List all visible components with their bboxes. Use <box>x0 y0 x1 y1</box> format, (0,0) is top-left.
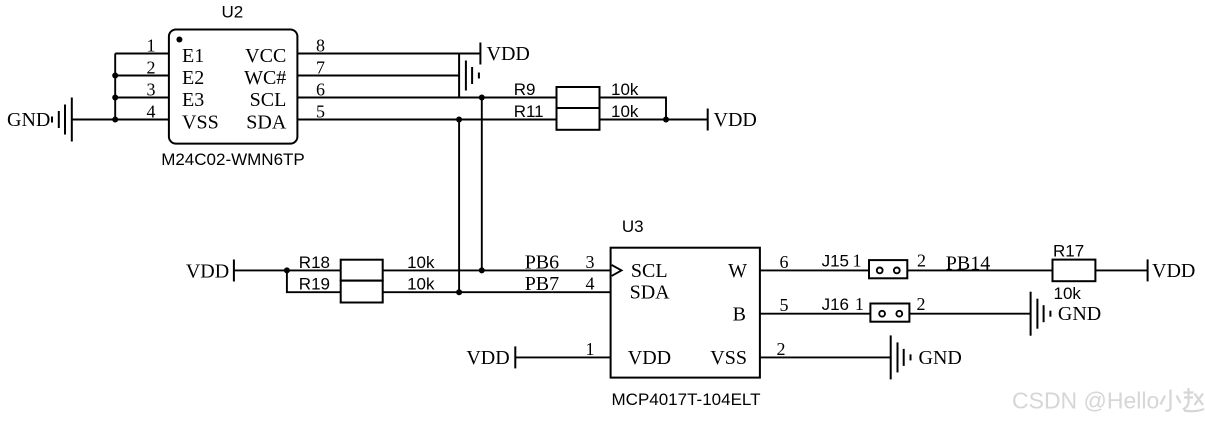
J16 pad 2 <box>896 311 902 317</box>
svg-text:VDD: VDD <box>1152 260 1195 282</box>
svg-text:VCC: VCC <box>245 45 286 67</box>
node junction SDA bottom PB7 <box>456 289 462 295</box>
wire branch down to R19 <box>287 270 341 292</box>
op-amp U2 body <box>169 30 298 144</box>
svg-text:R19: R19 <box>299 275 330 294</box>
wire R11 out to VDD <box>600 119 708 121</box>
node junction SCL bottom PB6 <box>479 267 485 273</box>
svg-text:PB14: PB14 <box>946 252 990 274</box>
wire R9 out to corner <box>600 98 667 120</box>
svg-text:E3: E3 <box>182 89 204 111</box>
svg-text:7: 7 <box>316 57 325 77</box>
svg-text:M24C02-WMN6TP: M24C02-WMN6TP <box>161 150 305 169</box>
svg-text:GND: GND <box>919 347 962 369</box>
svg-text:W: W <box>728 260 747 282</box>
svg-text:VDD: VDD <box>628 347 671 369</box>
wire pin1 stub <box>115 53 169 55</box>
resistor R11 <box>557 108 600 130</box>
wire pin4 / GND run <box>72 119 169 121</box>
wire pin2 stub <box>115 75 169 77</box>
svg-text:10k: 10k <box>611 102 639 121</box>
J15 pad 1 <box>877 268 883 274</box>
svg-text:WC#: WC# <box>244 67 286 89</box>
wire U2 pin7 WC# to ground <box>297 75 459 77</box>
svg-text:2: 2 <box>147 57 156 77</box>
wire VDD to R18 <box>234 269 341 271</box>
resistor R19 <box>341 281 383 303</box>
svg-text:5: 5 <box>780 295 789 315</box>
svg-text:PB6: PB6 <box>525 251 559 273</box>
svg-text:1: 1 <box>853 250 862 270</box>
svg-text:SDA: SDA <box>630 282 671 304</box>
svg-text:2: 2 <box>917 294 926 314</box>
watermark CJK char zhao <box>1183 388 1204 411</box>
wire U2 pin8 VCC to VDD <box>297 53 480 55</box>
svg-text:U2: U2 <box>222 3 244 22</box>
svg-text:J16: J16 <box>822 295 849 314</box>
svg-text:6: 6 <box>316 79 325 99</box>
svg-text:10k: 10k <box>407 253 435 272</box>
svg-text:2: 2 <box>777 339 786 359</box>
svg-text:E1: E1 <box>182 45 204 67</box>
svg-text:10k: 10k <box>1054 284 1082 303</box>
svg-text:R9: R9 <box>514 80 536 99</box>
wire J16 to ground <box>909 313 1030 315</box>
ground symbol at pin7 <box>459 54 479 98</box>
wire R19 out to U3 SDA <box>383 291 611 293</box>
resistor R18 <box>341 260 383 281</box>
power port VDD at pin8 <box>479 43 481 65</box>
node junction VDD branch <box>284 267 290 273</box>
svg-text:E2: E2 <box>182 67 204 89</box>
node junction pin3 <box>112 95 118 101</box>
power port VDD feeding R18/R19 <box>233 260 235 282</box>
svg-text:VDD: VDD <box>714 109 757 131</box>
svg-text:U3: U3 <box>622 217 644 236</box>
U3 clock mark on SCL <box>612 265 622 276</box>
power port VDD right of R17 <box>1147 259 1149 281</box>
U2 pin-1 indicator dot <box>176 37 182 43</box>
power port VDD right of R11 <box>707 109 709 131</box>
svg-text:3: 3 <box>586 252 595 272</box>
svg-text:6: 6 <box>780 252 789 272</box>
svg-text:SDA: SDA <box>246 111 287 133</box>
svg-text:8: 8 <box>316 35 325 55</box>
svg-text:VSS: VSS <box>710 347 747 369</box>
wire J15 to R17 <box>907 269 1052 271</box>
op-amp U3 body <box>611 248 760 378</box>
svg-text:1: 1 <box>586 339 595 359</box>
svg-text:VDD: VDD <box>487 43 530 65</box>
node junction SDA top <box>456 117 462 123</box>
svg-text:J15: J15 <box>822 252 849 271</box>
svg-text:VSS: VSS <box>182 111 219 133</box>
svg-text:SCL: SCL <box>631 260 668 282</box>
node junction pin2 <box>112 73 118 79</box>
node junction SCL top <box>479 95 485 101</box>
wire SDA vertical drop to PB7 <box>458 120 460 293</box>
svg-text:MCP4017T-104ELT: MCP4017T-104ELT <box>612 390 761 409</box>
J16 pad 1 <box>879 311 885 317</box>
wire U2 pin5 SDA to R11 <box>297 119 556 121</box>
svg-text:10k: 10k <box>407 275 435 294</box>
wire U3 pin2 VSS to ground <box>760 356 891 358</box>
ground symbol after J16 <box>1031 292 1051 336</box>
svg-text:B: B <box>733 303 746 325</box>
node junction R9/R11 outputs <box>663 117 669 123</box>
wire vertical bus E1-E2-E3-VSS <box>114 54 116 120</box>
wire VDD to U3 pin1 <box>515 356 610 358</box>
svg-text:R18: R18 <box>299 253 330 272</box>
wire SCL vertical drop to PB6 <box>481 98 483 271</box>
ground symbol at VSS <box>891 335 911 379</box>
svg-text:4: 4 <box>586 274 595 294</box>
resistor R9 <box>557 87 600 108</box>
node junction pin4 <box>112 117 118 123</box>
ground symbol left of U2 <box>52 98 72 142</box>
svg-text:PB7: PB7 <box>525 273 559 295</box>
svg-text:CSDN @Hello: CSDN @Hello <box>1012 388 1159 414</box>
wire U3 pin5 B to J16 <box>760 313 871 315</box>
wire U3 pin6 W to J15 <box>760 269 869 271</box>
svg-text:SCL: SCL <box>250 89 287 111</box>
wire R17 to VDD <box>1095 269 1147 271</box>
svg-text:1: 1 <box>855 294 864 314</box>
power port VDD at U3 pin1 <box>514 346 516 368</box>
wire pin3 stub <box>115 97 169 99</box>
svg-text:2: 2 <box>917 250 926 270</box>
svg-text:10k: 10k <box>611 80 639 99</box>
svg-text:4: 4 <box>147 101 156 121</box>
wire U2 pin6 SCL to R9 <box>297 97 556 99</box>
svg-text:R11: R11 <box>514 102 544 121</box>
resistor R17 <box>1053 260 1096 282</box>
svg-text:5: 5 <box>316 101 325 121</box>
J15 pad 2 <box>894 268 900 274</box>
watermark CJK char xiao <box>1161 390 1181 411</box>
svg-text:VDD: VDD <box>466 347 509 369</box>
wire R18 out to U3 SCL <box>383 269 611 271</box>
jumper J16 body <box>870 304 909 322</box>
svg-text:GND: GND <box>7 109 50 131</box>
jumper J15 body <box>869 260 907 278</box>
svg-text:R17: R17 <box>1053 241 1084 260</box>
svg-text:GND: GND <box>1058 303 1101 325</box>
svg-text:VDD: VDD <box>186 260 229 282</box>
svg-text:1: 1 <box>147 35 156 55</box>
svg-text:3: 3 <box>147 79 156 99</box>
